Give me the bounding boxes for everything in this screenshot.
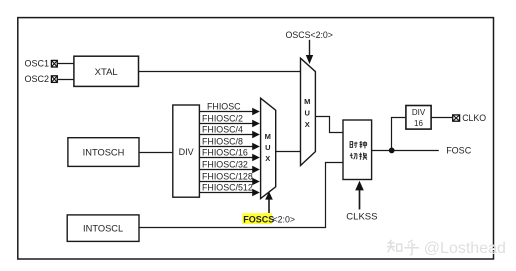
glyph 钟 bbox=[359, 141, 366, 148]
svg-text:CLKSS: CLKSS bbox=[346, 212, 377, 223]
node junction dot bbox=[389, 148, 395, 154]
glyph 切 bbox=[350, 153, 357, 159]
svg-text:FHIOSC/8: FHIOSC/8 bbox=[202, 136, 243, 146]
svg-text:CLKO: CLKO bbox=[462, 113, 486, 123]
block DIV bbox=[173, 105, 200, 197]
svg-text:INTOSCH: INTOSCH bbox=[83, 148, 125, 158]
svg-text:OSC1: OSC1 bbox=[25, 59, 50, 69]
block INTOSCH bbox=[68, 138, 139, 167]
svg-text:<2:0>: <2:0> bbox=[273, 215, 296, 225]
svg-text:XTAL: XTAL bbox=[95, 67, 118, 78]
wire FOSCS select arrow bbox=[265, 191, 273, 213]
svg-text:INTOSCL: INTOSCL bbox=[83, 224, 123, 234]
svg-text:OSCS<2:0>: OSCS<2:0> bbox=[286, 30, 333, 40]
svg-text:FHIOSC/16: FHIOSC/16 bbox=[202, 147, 248, 157]
svg-text:FOSCS: FOSCS bbox=[243, 215, 274, 225]
svg-text:U: U bbox=[265, 143, 270, 152]
wire OSCS select arrow bbox=[306, 40, 313, 64]
svg-text:FHIOSC/128: FHIOSC/128 bbox=[202, 171, 253, 181]
svg-text:FHIOSC/2: FHIOSC/2 bbox=[202, 113, 243, 123]
mux MUX2 bbox=[301, 58, 316, 165]
wire FHIOSC/512 bbox=[199, 182, 259, 196]
svg-text:U: U bbox=[304, 108, 309, 117]
svg-text:X: X bbox=[305, 120, 310, 129]
wire FHIOSC/8 bbox=[199, 136, 259, 150]
svg-text:M: M bbox=[304, 97, 310, 106]
svg-text:OSC2: OSC2 bbox=[25, 74, 50, 84]
wire FHIOSC/128 bbox=[199, 171, 259, 185]
svg-text:FHIOSC/32: FHIOSC/32 bbox=[202, 159, 248, 169]
wire INTOSCL to clock-switch bbox=[139, 163, 343, 228]
pin CLKO bbox=[453, 113, 487, 123]
wire junction to DIV16 bbox=[392, 118, 406, 151]
wire FHIOSC bbox=[199, 101, 259, 115]
wire MUX1 to MUX2 bbox=[276, 151, 301, 153]
svg-text:M: M bbox=[265, 132, 271, 141]
wire CLKSS select arrow bbox=[355, 181, 364, 210]
svg-text:FHIOSC/4: FHIOSC/4 bbox=[202, 124, 243, 134]
net label FOSCS<2:0> bbox=[242, 213, 295, 224]
glyph 乎 bbox=[404, 240, 419, 255]
svg-text:16: 16 bbox=[414, 119, 423, 128]
wire FHIOSC/2 bbox=[199, 113, 259, 127]
wire MUX2 to clock-switch bbox=[315, 117, 343, 133]
svg-text:DIV: DIV bbox=[412, 108, 426, 117]
glyph 时 bbox=[350, 142, 357, 148]
svg-text:FOSC: FOSC bbox=[446, 146, 472, 156]
block DIV16 bbox=[406, 106, 431, 130]
mux MUX1 bbox=[261, 98, 276, 198]
wire FHIOSC/32 bbox=[199, 159, 259, 173]
glyph 换 bbox=[359, 153, 367, 160]
pin OSC2 bbox=[25, 74, 58, 84]
block clock-switch 时钟切换 bbox=[343, 120, 372, 180]
wire XTAL to MUX2 bbox=[139, 71, 301, 73]
block INTOSCL bbox=[67, 215, 139, 242]
wire FHIOSC/16 bbox=[199, 147, 259, 161]
wire INTOSCH to DIV bbox=[139, 152, 173, 154]
wire clock-switch to FOSC bbox=[372, 150, 439, 152]
svg-text:@Losthead: @Losthead bbox=[424, 240, 506, 257]
wire OSC2 to XTAL bbox=[57, 79, 74, 81]
svg-text:FHIOSC/512: FHIOSC/512 bbox=[202, 182, 253, 192]
glyph 知 bbox=[387, 240, 402, 253]
pin OSC1 bbox=[25, 59, 58, 69]
block XTAL bbox=[74, 56, 139, 86]
wire DIV16 to CLKO bbox=[431, 117, 453, 119]
wire FHIOSC/4 bbox=[199, 124, 259, 138]
svg-text:X: X bbox=[265, 154, 270, 163]
wire OSC1 to XTAL bbox=[57, 63, 74, 65]
watermark 知乎 @Losthead bbox=[387, 240, 507, 258]
svg-text:DIV: DIV bbox=[179, 147, 194, 157]
svg-text:FHIOSC: FHIOSC bbox=[207, 101, 241, 111]
